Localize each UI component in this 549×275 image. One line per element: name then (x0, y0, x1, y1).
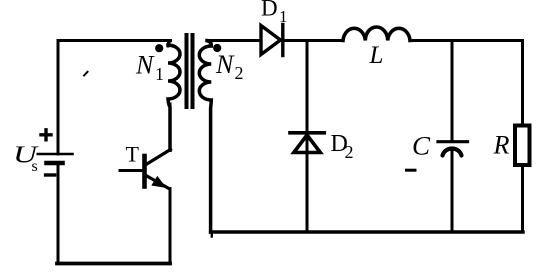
svg-text:1: 1 (155, 64, 164, 84)
transformer secondary winding N2 (199, 41, 211, 233)
wire D2 branch vertical (306, 41, 309, 233)
transistor Q T collector diagonal (146, 150, 171, 165)
svg-text:L: L (369, 42, 384, 69)
speck artifact near C (407, 169, 416, 172)
transistor Q T emitter arrow (153, 177, 165, 187)
svg-text:N: N (135, 51, 155, 80)
wire secondary top: N2 to D1 (207, 39, 260, 42)
wire D1 to L (284, 39, 343, 42)
transformer core bar left (185, 35, 189, 107)
wire primary bottom (57, 262, 170, 266)
wire L to right corner (410, 39, 523, 42)
transformer core bar right (191, 35, 195, 107)
battery + sign (41, 130, 51, 140)
wire secondary bottom (211, 230, 523, 233)
transistor Q T base lead (120, 169, 143, 172)
svg-text:T: T (126, 142, 140, 167)
capacitor C top plate (438, 140, 468, 143)
transformer primary winding N1 (168, 45, 180, 150)
battery Us short thick plate (47, 161, 63, 166)
diode D1 triangle (261, 26, 281, 55)
svg-text:2: 2 (345, 142, 354, 162)
speck artifact left (84, 72, 88, 76)
svg-text:1: 1 (279, 7, 288, 26)
wire primary left lower: battery to bottom (57, 166, 60, 264)
wire primary top: source to transformer primary (58, 41, 172, 47)
svg-text:N: N (215, 50, 235, 79)
wire collector vertical to transformer (169, 104, 172, 151)
wire emitter vertical to bottom (169, 189, 172, 264)
transistor Q T base bar (142, 156, 147, 187)
resistor R box (515, 126, 530, 166)
battery Us long plate (38, 153, 73, 156)
polarity dot N1 (155, 44, 163, 52)
wire C branch upper (451, 41, 454, 141)
capacitor C curved plate (443, 148, 462, 155)
wire R branch upper (521, 41, 524, 124)
diode D2 triangle (294, 135, 321, 153)
wire corner tick (211, 232, 213, 237)
wire primary left upper: down to battery (57, 41, 60, 155)
battery - sign (46, 173, 55, 176)
svg-text:s: s (32, 158, 38, 175)
svg-text:2: 2 (235, 63, 244, 83)
polarity dot N2 (213, 44, 221, 52)
svg-text:D: D (261, 0, 278, 21)
diode D1 cathode bar (281, 25, 284, 56)
transistor Q T emitter diagonal (146, 176, 169, 189)
wire C branch lower (451, 152, 454, 233)
inductor L humps (343, 27, 410, 41)
svg-text:C: C (412, 132, 431, 161)
wire R branch lower (521, 167, 524, 232)
svg-text:R: R (493, 131, 510, 160)
diode D2 cathode bar (290, 131, 324, 135)
